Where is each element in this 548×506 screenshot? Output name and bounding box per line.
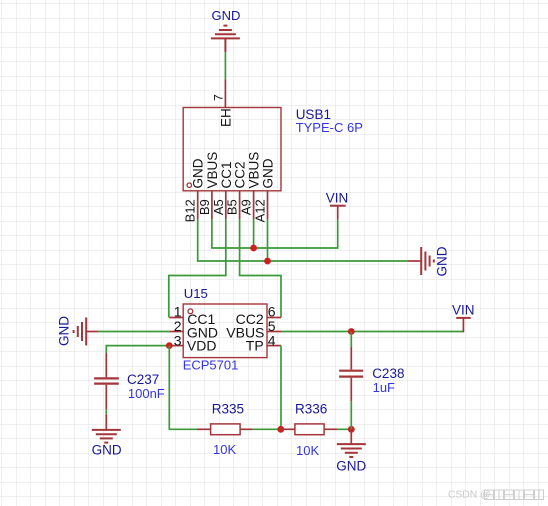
wire C238 top xyxy=(350,332,352,348)
wire CC2 drop to pin6 xyxy=(280,275,282,318)
wire CC1 drop to pin1 xyxy=(168,275,170,318)
svg-text:VDD: VDD xyxy=(187,338,217,354)
pin A9 VBUS xyxy=(253,191,255,219)
svg-text:GND: GND xyxy=(336,459,366,474)
svg-text:GND: GND xyxy=(57,316,72,346)
wire C237 drop xyxy=(105,345,107,353)
svg-text:GND: GND xyxy=(92,442,122,457)
wire EH to GND xyxy=(224,52,226,79)
wire GND row horizontal xyxy=(197,260,407,262)
capacitor C237 xyxy=(94,353,119,409)
wire B12 down xyxy=(197,219,199,261)
wire VIN riser xyxy=(337,220,339,249)
svg-text:CC2: CC2 xyxy=(233,161,248,188)
power pin VIN (upper) xyxy=(337,206,339,220)
wire CC2 horizontal xyxy=(239,275,281,277)
junction TP node xyxy=(277,426,284,433)
svg-text:GND: GND xyxy=(212,8,241,23)
svg-text:A9: A9 xyxy=(239,199,254,215)
pin 2 GND xyxy=(169,331,183,333)
pin B5 CC2 xyxy=(239,191,241,219)
IC U15 body xyxy=(183,304,267,358)
pin A12 GND xyxy=(267,191,269,219)
junction C238 GND node xyxy=(348,426,355,433)
ground symbol (right, rotated) xyxy=(407,247,434,275)
watermark CSDN xyxy=(448,490,544,501)
svg-text:GND: GND xyxy=(435,246,450,276)
svg-text:ECP5701: ECP5701 xyxy=(183,358,239,373)
svg-text:VIN: VIN xyxy=(452,303,475,318)
svg-text:VBUS: VBUS xyxy=(247,152,262,189)
svg-text:GND: GND xyxy=(191,158,206,188)
ground symbol (top, inverted) xyxy=(211,26,240,53)
junction A9-VBUS xyxy=(250,245,257,252)
junction VBUS C238 xyxy=(348,328,355,335)
svg-text:4: 4 xyxy=(268,333,276,349)
wire pin4 TP down xyxy=(280,346,282,430)
wire left GND to pin2 xyxy=(98,331,169,333)
svg-text:10K: 10K xyxy=(296,443,319,458)
svg-text:GND: GND xyxy=(261,158,276,188)
svg-text:U15: U15 xyxy=(184,286,208,301)
wire C238 bottom xyxy=(350,401,352,429)
svg-text:7: 7 xyxy=(212,94,226,101)
svg-text:A12: A12 xyxy=(253,199,268,222)
pin 6 CC2 xyxy=(267,317,281,319)
svg-text:B5: B5 xyxy=(225,199,240,215)
wire C237 to GND xyxy=(105,409,107,414)
svg-text:VIN: VIN xyxy=(326,191,349,206)
junction VDD node xyxy=(166,342,173,349)
wire CC1 horizontal xyxy=(169,275,227,277)
wire A5 CC1 down xyxy=(225,219,227,276)
pin 4 TP xyxy=(267,345,281,347)
pin indicator circle USB1 xyxy=(187,183,191,187)
pin B9 VBUS xyxy=(211,191,213,219)
svg-text:EH: EH xyxy=(218,108,233,127)
svg-text:R336: R336 xyxy=(295,402,327,417)
pin 1 CC1 xyxy=(169,317,183,319)
wire B5 CC2 down xyxy=(239,219,241,276)
pin 7 EH of USB1 xyxy=(224,79,226,107)
svg-text:100nF: 100nF xyxy=(128,386,165,401)
wire VDD to R335 (vertical) xyxy=(168,346,170,430)
svg-text:B9: B9 xyxy=(197,199,212,215)
junction A12-GND xyxy=(264,258,271,265)
svg-text:3: 3 xyxy=(174,332,182,348)
wire VBUS row horizontal xyxy=(211,247,338,249)
wire bottom row to R335 xyxy=(169,428,198,430)
wire A12 down xyxy=(267,219,269,261)
svg-text:C238: C238 xyxy=(372,366,404,381)
ground symbol (below C237) xyxy=(92,414,121,442)
pin indicator circle U15 xyxy=(188,309,193,314)
wire R335 to junction xyxy=(252,428,280,430)
power symbol VIN bar (upper) xyxy=(330,205,346,207)
usb connector U SB1 body xyxy=(183,108,281,191)
ground symbol (below R336) xyxy=(337,429,366,457)
svg-text:1uF: 1uF xyxy=(373,380,395,395)
resistor R336 xyxy=(281,424,338,435)
pin A5 CC1 xyxy=(225,191,227,219)
pin 3 VDD xyxy=(169,345,183,347)
pin B12 GND xyxy=(197,191,199,219)
svg-text:VBUS: VBUS xyxy=(205,152,220,189)
wire VBUS row to VIN (right) xyxy=(281,331,463,333)
ground symbol (left, rotated) xyxy=(74,318,99,346)
power symbol VIN bar (right) xyxy=(456,317,471,319)
power pin VIN (right) xyxy=(462,318,464,332)
svg-text:TYPE-C 6P: TYPE-C 6P xyxy=(296,120,363,135)
svg-text:R335: R335 xyxy=(212,401,244,416)
svg-text:B12: B12 xyxy=(183,199,198,222)
svg-text:TP: TP xyxy=(246,338,264,354)
wire B9 down xyxy=(211,219,213,248)
wire VDD row xyxy=(106,345,169,347)
wire A9 down xyxy=(253,219,255,248)
svg-text:CC1: CC1 xyxy=(219,161,234,188)
capacitor C238 xyxy=(339,347,363,401)
pin 5 VBUS xyxy=(267,331,281,333)
wire R336 to junction xyxy=(338,428,352,430)
svg-text:10K: 10K xyxy=(213,442,236,457)
svg-text:A5: A5 xyxy=(211,199,226,215)
resistor R335 xyxy=(197,424,252,435)
